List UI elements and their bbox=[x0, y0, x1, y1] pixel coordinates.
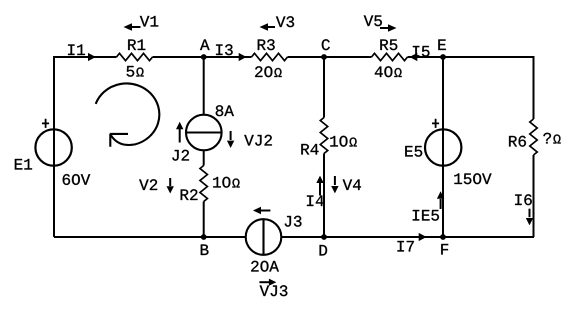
label VJ2 bbox=[244, 135, 272, 146]
label R3 bbox=[258, 39, 275, 50]
arrow V5 bbox=[380, 24, 397, 32]
label I5 bbox=[413, 46, 430, 57]
label J3 bbox=[285, 216, 302, 227]
label R1 bbox=[128, 39, 145, 50]
label 10ohm R4 bbox=[330, 136, 356, 147]
current source J2 8A bbox=[186, 115, 222, 151]
voltage source E1 60V bbox=[35, 129, 71, 165]
label V3 bbox=[276, 16, 294, 27]
wire R2 to B bbox=[203, 202, 205, 238]
label R4 bbox=[301, 144, 318, 155]
node E bbox=[440, 54, 446, 60]
arrow I7 on wire bbox=[419, 233, 427, 241]
label node C bbox=[322, 39, 330, 50]
resistor R5 40ohm bbox=[372, 53, 408, 60]
wire right lower bbox=[533, 155, 535, 237]
arrow J2 direction bbox=[176, 122, 183, 143]
node D bbox=[321, 234, 327, 240]
label R6 bbox=[509, 136, 526, 147]
label 10ohm R2 bbox=[213, 177, 239, 188]
label V5 bbox=[364, 15, 382, 26]
node F bbox=[440, 234, 446, 240]
resistor R6 ?ohm bbox=[530, 119, 537, 155]
arrow VJ3 bbox=[259, 279, 276, 286]
label 8A bbox=[216, 105, 234, 116]
arrow I1 on wire bbox=[88, 53, 96, 61]
label V2 bbox=[139, 179, 157, 190]
arrow J3 direction bbox=[253, 207, 270, 215]
label 60V bbox=[63, 174, 91, 185]
wire C to R4 bbox=[323, 57, 325, 118]
arrow V2 bbox=[167, 178, 174, 194]
label node D bbox=[320, 245, 328, 256]
label 20A bbox=[251, 261, 279, 272]
current source J3 20A bbox=[246, 219, 282, 255]
label I1 bbox=[68, 44, 85, 55]
label 150V bbox=[454, 173, 491, 184]
wire E to F through E5 bbox=[442, 57, 444, 237]
label node A bbox=[200, 39, 210, 50]
arrow VJ2 bbox=[227, 131, 234, 148]
label I6 bbox=[515, 194, 532, 205]
plus sign E1 bbox=[42, 119, 49, 128]
label 20ohm bbox=[255, 66, 282, 77]
node A bbox=[201, 54, 207, 60]
wire J2 bottom to R2 bbox=[203, 150, 205, 166]
wire top: R1 to R3 bbox=[153, 56, 252, 58]
arrow V1 bbox=[124, 23, 141, 31]
label node B bbox=[201, 244, 209, 255]
arrow V4 bbox=[331, 176, 338, 193]
label R2 bbox=[181, 189, 198, 200]
label I7 bbox=[397, 241, 413, 252]
wire bottom left: B rail bbox=[54, 236, 246, 238]
label 5ohm bbox=[127, 66, 144, 77]
arrow I3 on wire bbox=[239, 53, 247, 61]
mesh loop arrow bbox=[96, 83, 160, 146]
wire A to J2 top bbox=[203, 57, 205, 115]
label node E bbox=[438, 39, 446, 50]
arrow I5 on wire bbox=[410, 53, 418, 61]
label E5 bbox=[405, 146, 422, 157]
label V1 bbox=[140, 16, 158, 27]
label J2 bbox=[172, 150, 189, 161]
wire R4 to D bbox=[323, 154, 325, 238]
resistor R2 10ohm bbox=[200, 166, 207, 202]
arrow I4 bbox=[316, 176, 323, 196]
wire right upper bbox=[533, 56, 535, 119]
plus sign E5 bbox=[432, 119, 439, 128]
label I4 bbox=[307, 195, 324, 206]
arrow V3 bbox=[260, 23, 276, 31]
wire bottom right: D-F rail bbox=[281, 236, 534, 238]
wire top: corner to R1 bbox=[54, 56, 117, 58]
label V4 bbox=[343, 179, 361, 190]
node B bbox=[201, 234, 207, 240]
label E1 bbox=[15, 159, 32, 170]
label R5 bbox=[380, 39, 397, 50]
voltage source E5 150V bbox=[425, 129, 461, 165]
label I3 bbox=[216, 44, 233, 55]
node C bbox=[321, 54, 327, 60]
label ?ohm bbox=[543, 133, 560, 144]
label 40ohm bbox=[375, 66, 402, 77]
label VJ3 bbox=[260, 285, 288, 296]
resistor R3 20ohm bbox=[252, 53, 288, 60]
wire top: R3 to R5 bbox=[288, 56, 372, 58]
label IE5 bbox=[413, 210, 439, 221]
arrow IE5 bbox=[437, 191, 444, 209]
arrow I6 bbox=[526, 209, 533, 226]
label node F bbox=[441, 244, 448, 255]
wire top: R5 to corner bbox=[408, 56, 535, 58]
resistor R4 10ohm bbox=[320, 118, 327, 154]
resistor R1 5ohm bbox=[117, 53, 153, 60]
wire left: through E1 bbox=[53, 56, 55, 237]
